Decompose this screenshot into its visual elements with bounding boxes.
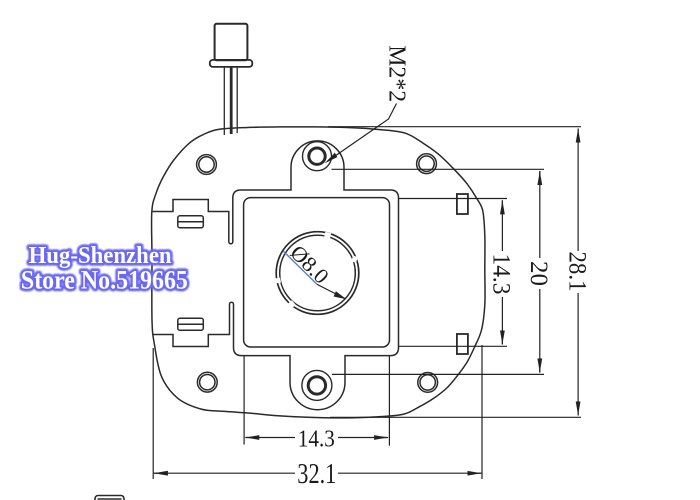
tab top-right bbox=[457, 194, 468, 214]
dim line 32.1 bbox=[155, 472, 296, 474]
ext line 20 bottom bbox=[332, 373, 544, 375]
svg-text:14.3: 14.3 bbox=[487, 254, 514, 295]
wire right bbox=[236, 67, 238, 133]
ext line 32.1 left bbox=[152, 348, 154, 479]
board outline bbox=[152, 127, 486, 418]
lens ring notches bbox=[275, 232, 358, 308]
screw hole top M2 bbox=[303, 142, 332, 171]
watermark line 1 bbox=[21, 243, 188, 295]
dim line 28.1 bbox=[577, 129, 579, 252]
ext line 28.1 bottom bbox=[330, 416, 581, 418]
ext line 28.1 top bbox=[328, 126, 581, 128]
svg-text:Store No.519665: Store No.519665 bbox=[21, 266, 188, 295]
ext line 14.3 bottom left bbox=[243, 356, 245, 445]
lens circle inner bbox=[280, 235, 356, 311]
leader M2*2 bbox=[328, 104, 397, 162]
screw hole bottom M2 bbox=[302, 370, 332, 400]
lens holder square bbox=[244, 198, 390, 347]
connector head bbox=[215, 24, 248, 60]
dim line 14.3 bottom bbox=[246, 437, 295, 439]
corner hole bottom-right bbox=[418, 373, 438, 393]
tab bottom-right bbox=[457, 334, 468, 354]
svg-text:M2*2: M2*2 bbox=[383, 45, 409, 102]
ext line 32.1 right bbox=[481, 345, 483, 479]
svg-text:Ø8.0: Ø8.0 bbox=[285, 240, 333, 288]
wire middle bbox=[230, 67, 233, 134]
ext line 20 top bbox=[332, 168, 545, 170]
corner hole top-right bbox=[417, 154, 437, 174]
ext line 14.3 right top (wing line) bbox=[399, 198, 508, 200]
leader Ø8.0 blue segment bbox=[284, 251, 318, 284]
arrowhead M2*2 leader bbox=[325, 153, 338, 164]
dim line 20 bbox=[539, 171, 541, 258]
svg-text:28.1: 28.1 bbox=[563, 252, 590, 292]
housing contour with wings, slots and screw bosses bbox=[153, 141, 399, 410]
ext line 14.3 bottom right bbox=[388, 356, 390, 446]
corner hole top-left bbox=[197, 155, 217, 175]
ext line 14.3 right bottom (wing line) bbox=[399, 345, 508, 347]
corner hole bottom-left bbox=[197, 372, 217, 392]
arrowhead Ø8.0 leader bbox=[334, 291, 347, 299]
svg-text:20: 20 bbox=[525, 261, 552, 286]
svg-text:14.3: 14.3 bbox=[298, 426, 335, 453]
slot pad top-left bbox=[178, 216, 204, 228]
slot pad bottom-left bbox=[178, 318, 204, 330]
partial shape at bottom edge bbox=[95, 496, 124, 500]
leader Ø8.0 black segment bbox=[317, 284, 345, 298]
lens circle outer bbox=[276, 232, 359, 315]
wire left bbox=[223, 67, 225, 135]
svg-text:32.1: 32.1 bbox=[297, 458, 336, 490]
dim line 14.3 right bbox=[501, 200, 503, 251]
connector flange bbox=[210, 60, 253, 67]
